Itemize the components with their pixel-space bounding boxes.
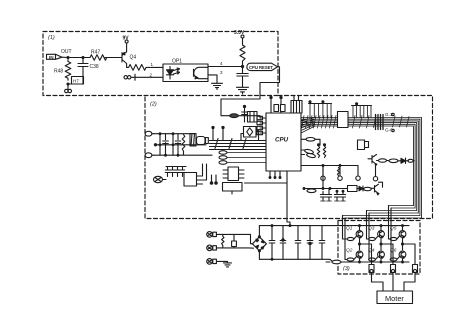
svg-text:(3): (3) bbox=[343, 266, 350, 272]
svg-text:CPU RESET: CPU RESET bbox=[249, 65, 273, 70]
resistor bbox=[182, 135, 185, 155]
svg-text:(2): (2) bbox=[150, 102, 157, 108]
wire (upper rail) bbox=[154, 133, 195, 135]
enclosure box (1) bbox=[43, 32, 278, 96]
node bbox=[322, 166, 331, 190]
capacitor C38 bbox=[78, 57, 99, 85]
node bbox=[241, 65, 243, 67]
connector J2 bbox=[291, 96, 302, 113]
eeprom U3 bbox=[223, 167, 244, 181]
sense R (W) bbox=[413, 265, 418, 273]
varistor bbox=[232, 234, 237, 248]
connector P2 bbox=[154, 176, 167, 182]
wire (DC- rail) bbox=[259, 251, 333, 262]
sense R (U) bbox=[369, 265, 374, 273]
transistor Q3 bbox=[367, 225, 385, 250]
wire (reset run) bbox=[221, 67, 280, 116]
svg-text:Q5: Q5 bbox=[390, 226, 397, 232]
node bbox=[67, 83, 69, 85]
terminal T1 bbox=[145, 131, 154, 136]
CPU bottom pins bbox=[245, 171, 288, 183]
svg-text:C38: C38 bbox=[90, 64, 99, 70]
svg-text:Q2: Q2 bbox=[346, 248, 353, 254]
ground bbox=[224, 261, 232, 267]
connector IN bbox=[47, 54, 69, 60]
pin 4 wire bbox=[208, 61, 242, 67]
resistor (across line) bbox=[222, 234, 224, 248]
pin 3 wire bbox=[208, 70, 223, 83]
capacitor C43 bbox=[307, 226, 313, 260]
svg-text:1: 1 bbox=[151, 62, 154, 67]
svg-text:(1): (1) bbox=[48, 35, 55, 41]
resistor (emitter) bbox=[127, 65, 150, 71]
svg-text:H7: H7 bbox=[73, 79, 79, 84]
svg-text:CPU: CPU bbox=[275, 137, 289, 144]
test pad bbox=[373, 165, 377, 181]
svg-text:OUT: OUT bbox=[61, 49, 72, 55]
crystal Y1 bbox=[241, 127, 259, 141]
resistor (CPU right) bbox=[301, 138, 320, 146]
network block bbox=[358, 140, 369, 150]
resistor (vertical small) bbox=[337, 168, 339, 176]
resonator X1 bbox=[190, 134, 208, 147]
ground bbox=[212, 83, 223, 89]
wire (neutral input) bbox=[216, 247, 253, 249]
wire bbox=[238, 116, 266, 118]
resistor pair (slanted) bbox=[301, 149, 316, 159]
bridge rectifier BR1 bbox=[252, 236, 266, 252]
resistor (pullup) bbox=[240, 44, 245, 66]
capacitor C40 bbox=[269, 225, 275, 260]
wire (middle rail) bbox=[154, 144, 206, 146]
resistor R47 bbox=[88, 50, 109, 61]
resistor pair (vertical) bbox=[317, 144, 325, 158]
CPU top decoupling bbox=[270, 96, 285, 113]
capacitor C44 bbox=[319, 226, 325, 260]
wire (gate drops) bbox=[343, 206, 392, 258]
node G-6 bbox=[385, 128, 394, 133]
wire bbox=[68, 83, 83, 85]
transistor Q7 bbox=[368, 155, 377, 166]
node dots bbox=[210, 175, 217, 184]
test pads bbox=[321, 166, 360, 181]
svg-text:Q4: Q4 bbox=[130, 55, 137, 61]
supply 3.3V bbox=[234, 30, 245, 44]
svg-text:OP1: OP1 bbox=[172, 58, 182, 64]
enclosure box (3) bbox=[338, 221, 420, 275]
connector P3 bbox=[207, 232, 217, 238]
resistor (oval) bbox=[307, 189, 316, 193]
comparator block bbox=[348, 186, 372, 192]
transistor Q5 bbox=[389, 225, 406, 250]
svg-text:4: 4 bbox=[220, 61, 223, 66]
connector P4 bbox=[207, 245, 217, 251]
capacitor bank bbox=[159, 133, 181, 156]
bus (gate drive band) bbox=[301, 116, 422, 129]
transistor Q8 bbox=[371, 182, 383, 195]
inductor L1 bbox=[326, 260, 409, 264]
connector P5 bbox=[207, 259, 217, 265]
supply 9V bbox=[123, 36, 130, 52]
transistor Q1 bbox=[343, 225, 363, 250]
wire (CPU bus entry) bbox=[301, 118, 315, 134]
wire bbox=[216, 260, 227, 262]
node G.1 bbox=[385, 112, 394, 117]
transistor Q4 bbox=[122, 52, 136, 68]
CPU left pin components bbox=[257, 116, 266, 134]
ferrite bead bbox=[230, 114, 239, 118]
wire (motor V) bbox=[392, 273, 394, 292]
wire (phase W) bbox=[402, 243, 416, 265]
diode D2 bbox=[401, 158, 414, 164]
wire (phase U) bbox=[359, 243, 372, 265]
terminal T2 bbox=[145, 153, 154, 158]
sense R (V) bbox=[391, 265, 396, 273]
svg-text:3: 3 bbox=[220, 70, 223, 75]
wire (feed stub) bbox=[287, 183, 291, 227]
enclosure box (2) bbox=[145, 96, 433, 219]
resistor array RA2 bbox=[352, 103, 372, 118]
capacitor bbox=[237, 67, 248, 88]
ground bbox=[237, 87, 249, 94]
optocoupler OP1 bbox=[163, 58, 208, 81]
power pin stubs bbox=[212, 126, 224, 140]
motor M bbox=[377, 291, 413, 304]
label CPU RESET bbox=[247, 63, 278, 70]
bus (bottom corners) bbox=[343, 206, 422, 219]
svg-text:R48: R48 bbox=[54, 69, 63, 75]
wire (lower rail) bbox=[154, 154, 212, 156]
regulator U2 bbox=[184, 164, 207, 186]
CPU U1 bbox=[266, 113, 301, 171]
capacitor row bbox=[165, 167, 186, 177]
pin 1 bbox=[151, 62, 164, 68]
capacitor pair bbox=[242, 105, 248, 122]
wire bundle to CPU bbox=[210, 139, 267, 150]
wire (DC+ rail) bbox=[259, 226, 409, 237]
node OUT bbox=[61, 49, 72, 59]
transistor Q4 (bridge) bbox=[368, 248, 384, 263]
driver U4 bbox=[338, 112, 349, 128]
filter block bbox=[248, 112, 258, 123]
transistor Q6 bbox=[390, 248, 406, 263]
pin 2 wire bbox=[131, 72, 163, 80]
transistor Q2 bbox=[345, 248, 363, 263]
ground bbox=[65, 84, 72, 93]
wire bbox=[68, 57, 88, 59]
resistor R48 bbox=[54, 60, 71, 81]
svg-text:R47: R47 bbox=[91, 50, 100, 56]
wire (lower chain) bbox=[303, 188, 347, 190]
resistor array RA1 bbox=[309, 101, 332, 118]
svg-text:Moter: Moter bbox=[385, 294, 404, 303]
wire loop bbox=[223, 183, 243, 195]
capacitor row (below) bbox=[320, 189, 345, 202]
svg-text:IN: IN bbox=[49, 55, 54, 60]
svg-text:2: 2 bbox=[150, 72, 153, 77]
svg-text:Q3: Q3 bbox=[368, 226, 375, 232]
wire (motor W) bbox=[404, 273, 415, 292]
wire (motor U) bbox=[372, 273, 384, 292]
capacitor C42 bbox=[295, 226, 301, 260]
wire (phase V) bbox=[380, 243, 393, 265]
bus (right vertical run) bbox=[414, 118, 422, 219]
ground bbox=[124, 76, 131, 79]
svg-text:9V: 9V bbox=[123, 36, 130, 42]
resistor chain bbox=[377, 159, 402, 163]
svg-text:Q1: Q1 bbox=[346, 226, 353, 232]
resistor pack RP0 bbox=[219, 151, 266, 165]
wire (long horizontal) bbox=[301, 165, 358, 167]
wire (line input) bbox=[216, 234, 252, 243]
jumper H7 bbox=[72, 77, 84, 85]
capacitor C41 bbox=[280, 226, 286, 260]
connector comb bbox=[376, 115, 384, 130]
wire bbox=[105, 57, 122, 59]
